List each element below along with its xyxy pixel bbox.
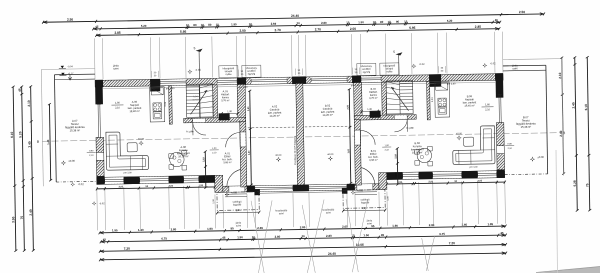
svg-text:2.65: 2.65 [342, 225, 348, 229]
porch dashed right [343, 190, 385, 209]
svg-text:egység: egység [248, 74, 256, 76]
svg-text:szint: szint [326, 211, 331, 214]
svg-text:10: 10 [249, 22, 253, 26]
svg-text:5.95: 5.95 [409, 26, 415, 30]
terrace step arrow [68, 74, 71, 80]
svg-text:45: 45 [495, 18, 499, 22]
svg-text:pm 3,00: pm 3,00 [470, 167, 479, 169]
svg-text:6.75: 6.75 [161, 237, 167, 241]
kitchen partition left [169, 86, 173, 125]
svg-text:1,60: 1,60 [348, 148, 350, 153]
left terrace inner dim 1.40 [49, 104, 50, 180]
svg-text:szellőző: szellőző [247, 71, 256, 73]
entry dim right [396, 148, 399, 184]
entry dim left [204, 152, 207, 188]
left vertical dim line 1 (6.10) [13, 87, 16, 251]
svg-text:10: 10 [252, 235, 256, 239]
level star -0.02 top-right [411, 64, 416, 69]
svg-text:+0.05: +0.05 [357, 190, 364, 192]
svg-text:15,38 m²: 15,38 m² [521, 125, 532, 129]
kitchen partition right [427, 81, 431, 120]
svg-text:±0.00: ±0.00 [138, 138, 145, 141]
partition wall A (stairs east) [213, 85, 218, 122]
svg-text:fagyálló: fagyálló [233, 203, 242, 206]
scan crease V lines [251, 201, 264, 273]
svg-text:±0.00: ±0.00 [68, 159, 75, 163]
svg-text:7.20: 7.20 [124, 247, 130, 251]
svg-text:45: 45 [381, 233, 385, 237]
top exterior wall hatched band [95, 74, 503, 87]
svg-text:2.00: 2.00 [350, 27, 356, 31]
svg-text:16×18: 16×18 [192, 98, 199, 101]
svg-text:2,18: 2,18 [203, 157, 205, 162]
svg-text:pm 3,00: pm 3,00 [124, 172, 133, 174]
svg-text:2.80: 2.80 [326, 234, 332, 238]
svg-text:5: 5 [393, 50, 395, 54]
svg-text:1.40: 1.40 [46, 139, 50, 145]
svg-text:3,76 m²: 3,76 m² [369, 97, 378, 100]
center block bottom wall [223, 184, 379, 193]
dining table left unit [170, 152, 185, 167]
porch canopy pier left [254, 189, 260, 195]
pier P1 left [219, 113, 230, 120]
center block windows [255, 185, 293, 191]
svg-text:15,38 m²: 15,38 m² [70, 128, 81, 132]
svg-text:45: 45 [18, 88, 22, 92]
svg-text:1.50: 1.50 [363, 233, 369, 237]
right vertical dim line 3 (6.10) [587, 57, 590, 210]
svg-text:1.90: 1.90 [231, 22, 237, 26]
bottom wall left unit piers [97, 177, 105, 185]
svg-text:P1 pillér: P1 pillér [186, 130, 194, 133]
svg-text:tolóajtó: tolóajtó [225, 70, 233, 73]
terrace A.07 outer boundary [41, 69, 43, 186]
svg-text:1,80: 1,80 [485, 103, 491, 106]
hall bottom wall right [354, 115, 416, 121]
left wall door opening [95, 152, 97, 160]
svg-text:2.65: 2.65 [257, 226, 263, 230]
svg-text:szint: szint [113, 67, 118, 70]
section line 5 top-left [199, 50, 200, 122]
svg-text:7.20: 7.20 [449, 241, 455, 245]
svg-text:14,20 m²: 14,20 m² [322, 113, 332, 117]
svg-text:80: 80 [193, 23, 197, 27]
svg-text:30: 30 [302, 234, 306, 238]
svg-text:95: 95 [230, 226, 234, 230]
left exterior wall corner pier [97, 176, 105, 184]
B.02 door arc [355, 130, 360, 145]
room dim chain B.02 [349, 89, 351, 183]
partition B.02 east wall [354, 119, 361, 185]
level mark -0.02 below left wall [92, 201, 96, 205]
svg-text:45: 45 [103, 238, 107, 242]
staircase right unit [386, 81, 413, 114]
terrace A.07 slab edge [54, 73, 94, 76]
svg-text:egység: egység [363, 72, 371, 74]
svg-text:2.50: 2.50 [519, 10, 525, 14]
svg-text:2,05: 2,05 [119, 186, 124, 188]
bottom wall left unit windows [105, 177, 124, 184]
porch level +0.05 left [225, 192, 229, 196]
top dimension row 1 (2.50 / 24.40 / 2.50) [43, 14, 544, 22]
svg-text:2.80: 2.80 [171, 227, 177, 231]
svg-text:-0.02: -0.02 [78, 182, 85, 186]
svg-text:tolóajtó: tolóajtó [386, 67, 394, 70]
svg-text:-0.02: -0.02 [490, 62, 496, 65]
svg-text:2,50: 2,50 [248, 106, 250, 111]
svg-text:24.40: 24.40 [328, 252, 336, 256]
svg-text:2.80: 2.80 [321, 21, 327, 25]
svg-text:1,00: 1,00 [204, 175, 206, 180]
step wall left [215, 175, 223, 192]
svg-text:2.85: 2.85 [114, 31, 120, 35]
level mark -0.02 right top [482, 63, 487, 68]
svg-text:75: 75 [585, 183, 589, 187]
svg-text:90: 90 [396, 20, 400, 24]
svg-text:6.75: 6.75 [439, 232, 445, 236]
bottom wall right unit piers [387, 172, 403, 180]
svg-text:2.50: 2.50 [67, 18, 73, 22]
partition wall B (stairs west) [382, 82, 387, 119]
svg-text:-0.02: -0.02 [419, 63, 425, 66]
svg-text:5.28: 5.28 [573, 180, 577, 186]
svg-text:14,20 m²: 14,20 m² [270, 114, 280, 118]
svg-text:1.50: 1.50 [358, 20, 364, 24]
level star A.02 [276, 157, 281, 162]
svg-text:3.40: 3.40 [28, 141, 32, 147]
tolóajtó label box left 1 [219, 66, 238, 78]
svg-text:1,80: 1,80 [115, 101, 121, 104]
pier P1 right [370, 111, 381, 118]
kitchen counter left unit [150, 87, 165, 122]
svg-text:-0.17: -0.17 [68, 72, 74, 75]
svg-text:16,50 m²: 16,50 m² [412, 150, 422, 154]
svg-text:szint: szint [512, 67, 517, 70]
svg-text:45: 45 [95, 25, 99, 29]
section line 5 top-right [398, 53, 400, 75]
svg-text:3,68 m²: 3,68 m² [223, 161, 232, 164]
svg-text:80: 80 [208, 23, 212, 27]
svg-text:2.85: 2.85 [475, 25, 481, 29]
level star B.02 [328, 156, 333, 161]
svg-text:2,00: 2,00 [429, 181, 434, 183]
partition wall hall right [354, 82, 363, 119]
svg-text:2,10: 2,10 [485, 108, 491, 111]
right vertical dim line 2 (2.40 5.28) [575, 57, 578, 210]
bottom dimension row B [101, 235, 506, 242]
svg-text:5.20: 5.20 [447, 19, 453, 23]
svg-text:1.40: 1.40 [138, 228, 144, 232]
left vertical dim line 3 (2.10 3.40) [31, 86, 34, 250]
top wall window glazing [160, 79, 186, 85]
svg-text:nyílás: nyílás [386, 71, 393, 73]
entry door opening left [229, 186, 245, 192]
svg-text:30: 30 [297, 21, 301, 25]
step wall right [379, 173, 387, 190]
top wall inner sill line [103, 82, 495, 88]
coffee table left [127, 143, 137, 152]
right exterior wall corner pier top [496, 80, 504, 98]
hall bottom wall left [184, 117, 246, 123]
right exterior wall corner pier [497, 170, 505, 178]
svg-text:P1 pillér: P1 pillér [406, 127, 414, 130]
hall door arc right [394, 115, 407, 119]
svg-text:hőszigetelő: hőszigetelő [223, 67, 235, 70]
gallery dashed line A.02 [248, 126, 295, 129]
svg-text:+0.05: +0.05 [231, 193, 238, 195]
kitchen counter right unit [435, 82, 450, 117]
svg-text:1,30: 1,30 [227, 110, 232, 113]
svg-text:5.20: 5.20 [141, 24, 147, 28]
page edge artifact bottom-right [536, 267, 600, 273]
right exterior wall lower [497, 154, 505, 170]
bottom wall left unit hatched [97, 175, 215, 184]
tolóajtó label box left 2 [242, 65, 261, 77]
porch level +0.05 right [351, 190, 355, 194]
left vertical dim line 2 (.45 5.20) [22, 87, 25, 251]
svg-text:10: 10 [404, 19, 408, 23]
entry door opening right [357, 184, 373, 190]
svg-text:±0.00: ±0.00 [456, 132, 463, 135]
terrace left level mark ±0.00 [61, 160, 66, 165]
terrace B.07 outer boundary [562, 59, 564, 176]
terrace left top level marks -0.04 -0.17 [61, 66, 64, 69]
svg-text:hővisszany.: hővisszany. [245, 68, 257, 70]
terrace B.07 slab edge [503, 64, 546, 67]
svg-text:±0.00: ±0.00 [327, 153, 334, 156]
svg-text:16,50 m²: 16,50 m² [178, 154, 188, 158]
staircase left unit [186, 84, 213, 117]
svg-text:1,60: 1,60 [249, 150, 251, 155]
svg-text:10: 10 [373, 20, 377, 24]
svg-text:6.10: 6.10 [584, 104, 588, 110]
svg-text:2,18: 2,18 [395, 153, 397, 158]
svg-text:szint: szint [279, 212, 284, 215]
svg-text:24.40: 24.40 [291, 14, 299, 18]
svg-text:10: 10 [201, 23, 205, 27]
svg-text:45: 45 [500, 231, 504, 235]
svg-text:1,55: 1,55 [199, 185, 204, 187]
svg-text:1.95: 1.95 [487, 222, 493, 226]
svg-text:16,45 m²: 16,45 m² [464, 103, 474, 107]
room dim chain A.02 [250, 91, 252, 185]
svg-text:5.95: 5.95 [180, 30, 186, 34]
top witness extension lines [93, 38, 96, 79]
porch dashed left [217, 192, 259, 211]
svg-text:nyílás: nyílás [225, 74, 232, 76]
dim 1.30 left [222, 113, 238, 115]
bottom witness extension lines [96, 187, 99, 230]
svg-text:3,68 m²: 3,68 m² [369, 159, 378, 162]
svg-text:10: 10 [216, 23, 220, 27]
svg-text:80: 80 [380, 20, 384, 24]
svg-text:pm 2,90: pm 2,90 [351, 84, 360, 87]
svg-text:±0.00: ±0.00 [275, 154, 282, 157]
svg-text:2,00: 2,00 [169, 186, 174, 188]
porch slab edge center [259, 192, 343, 193]
svg-text:3,76 m²: 3,76 m² [221, 99, 230, 102]
sub-dim row right unit [387, 182, 505, 184]
svg-text:2,10: 2,10 [115, 106, 121, 109]
partition wall hall left [237, 84, 246, 121]
right wall door opening [496, 146, 498, 154]
svg-text:2,23: 2,23 [431, 97, 434, 102]
sub-dim row left unit [97, 187, 215, 189]
svg-text:3.90: 3.90 [11, 216, 15, 222]
svg-text:1,00: 1,00 [396, 171, 398, 176]
level star konyha left [138, 140, 143, 145]
svg-text:2.70: 2.70 [315, 27, 321, 31]
section line B-B horizontal [42, 133, 560, 142]
svg-text:2.80: 2.80 [275, 235, 281, 239]
svg-text:2.70: 2.70 [274, 28, 280, 32]
terrace left level mark -0.02 [71, 182, 75, 186]
svg-text:fagyálló: fagyálló [361, 201, 370, 204]
svg-text:2,05: 2,05 [478, 180, 483, 182]
top wall piers [95, 80, 103, 88]
sofa left unit [106, 132, 149, 171]
svg-text:2.10: 2.10 [558, 72, 562, 78]
right wall window [498, 95, 500, 123]
svg-text:2.80: 2.80 [300, 225, 306, 229]
svg-text:10.06: 10.06 [356, 243, 364, 247]
center block piers [247, 185, 255, 192]
svg-text:2.80: 2.80 [429, 223, 435, 227]
svg-text:10: 10 [186, 23, 190, 27]
svg-text:2.40: 2.40 [29, 209, 33, 215]
svg-text:5.20: 5.20 [18, 131, 22, 137]
svg-text:pm 2,90: pm 2,90 [239, 86, 248, 89]
left exterior wall mid [96, 137, 104, 152]
svg-text:szint: szint [367, 222, 372, 225]
tolóajtó label box right 1 [357, 63, 376, 75]
svg-text:1.90: 1.90 [392, 224, 398, 228]
svg-text:-0.04: -0.04 [195, 69, 201, 72]
dining table right unit [417, 148, 432, 163]
svg-text:2.00: 2.00 [239, 29, 245, 33]
svg-text:±0.00: ±0.00 [537, 155, 544, 159]
svg-text:2.40: 2.40 [571, 102, 575, 108]
tolóajtó label box right 2 [380, 63, 399, 75]
svg-text:pm 2,90: pm 2,90 [166, 87, 175, 90]
gallery dashed line B.02 [305, 125, 352, 128]
bottom wall right unit windows [403, 172, 419, 179]
right vertical dim line 1 (2.10) [562, 58, 564, 174]
svg-text:1.90: 1.90 [207, 227, 213, 231]
svg-text:2,50: 2,50 [347, 104, 349, 109]
bottom dimension row A [100, 226, 506, 233]
partition A.02 west wall [240, 121, 247, 187]
top dimension row 2 (.45 5.20 ... detail) [93, 22, 500, 29]
top dimension row 3 (2.85 5.95 ...) [96, 29, 499, 36]
svg-text:-0.04: -0.04 [67, 65, 73, 68]
coffee table right [464, 137, 474, 146]
bottom dimension row D (24.40 overall) [100, 253, 506, 260]
level star konyha right [456, 135, 461, 140]
svg-text:2.69: 2.69 [271, 22, 277, 26]
svg-text:1.50: 1.50 [237, 235, 243, 239]
sofa right unit [452, 126, 495, 165]
svg-text:hőszigetelő: hőszigetelő [384, 64, 396, 67]
svg-text:2,23: 2,23 [164, 101, 167, 106]
svg-text:1,30: 1,30 [367, 108, 372, 111]
dim 1.30 right [362, 110, 378, 112]
hall door arc left [193, 119, 206, 123]
A.02 door arc [240, 132, 245, 147]
level star +0.04 top-left [187, 69, 192, 74]
svg-text:5: 5 [194, 46, 196, 50]
svg-text:1.95: 1.95 [112, 228, 118, 232]
bottom dimension row C (7.20 10.06 7.20) [100, 245, 506, 252]
porch canopy pier right [342, 188, 348, 194]
right exterior wall mid [496, 123, 504, 146]
svg-text:szint: szint [236, 224, 241, 227]
svg-text:6.10: 6.10 [10, 131, 14, 137]
svg-text:2,86: 2,86 [236, 209, 242, 212]
svg-text:45: 45 [222, 236, 226, 240]
svg-text:-0.02: -0.02 [99, 202, 105, 205]
svg-text:2.10: 2.10 [27, 100, 31, 106]
svg-text:szellőző: szellőző [362, 69, 371, 71]
svg-text:hővisszany.: hővisszany. [360, 66, 372, 68]
svg-text:18,40 m²: 18,40 m² [129, 109, 139, 113]
left exterior wall corner pier top [95, 87, 103, 105]
bottom wall right unit hatched [387, 171, 505, 180]
svg-text:10: 10 [346, 20, 350, 24]
terrace right level mark +0.00 [530, 157, 535, 162]
svg-text:75: 75 [20, 216, 24, 220]
center party wall [296, 83, 305, 185]
svg-text:pm 2,90: pm 2,90 [447, 82, 456, 85]
porch dim 2.86 right [343, 209, 385, 212]
svg-text:10: 10 [388, 20, 392, 24]
left exterior wall lower [96, 160, 104, 176]
left wall window [97, 104, 100, 137]
porch dim 2.86 left [217, 211, 259, 214]
svg-text:Porotherm 30 N+F hangszig.: Porotherm 30 N+F hangszig. [293, 135, 296, 165]
